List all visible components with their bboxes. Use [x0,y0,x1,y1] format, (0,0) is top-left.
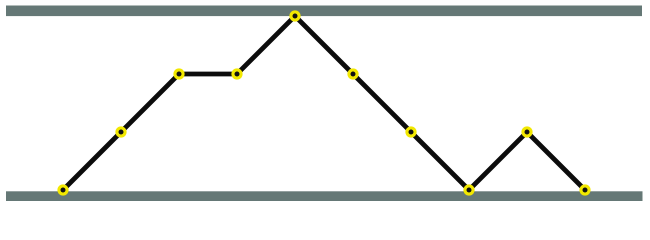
node P1 [57,184,68,195]
node P4 [231,68,242,79]
node P9 [521,126,532,137]
node P2 [115,126,126,137]
node P8 [463,184,474,195]
bottom boundary bar [6,191,643,201]
node P5 (peak) [289,10,300,21]
node P3 [173,68,184,79]
wire path P1-P10 (Motzkin path polyline) [63,16,585,190]
node P10 [579,184,590,195]
top boundary bar [6,6,642,17]
node P6 [347,68,358,79]
node P7 [405,126,416,137]
